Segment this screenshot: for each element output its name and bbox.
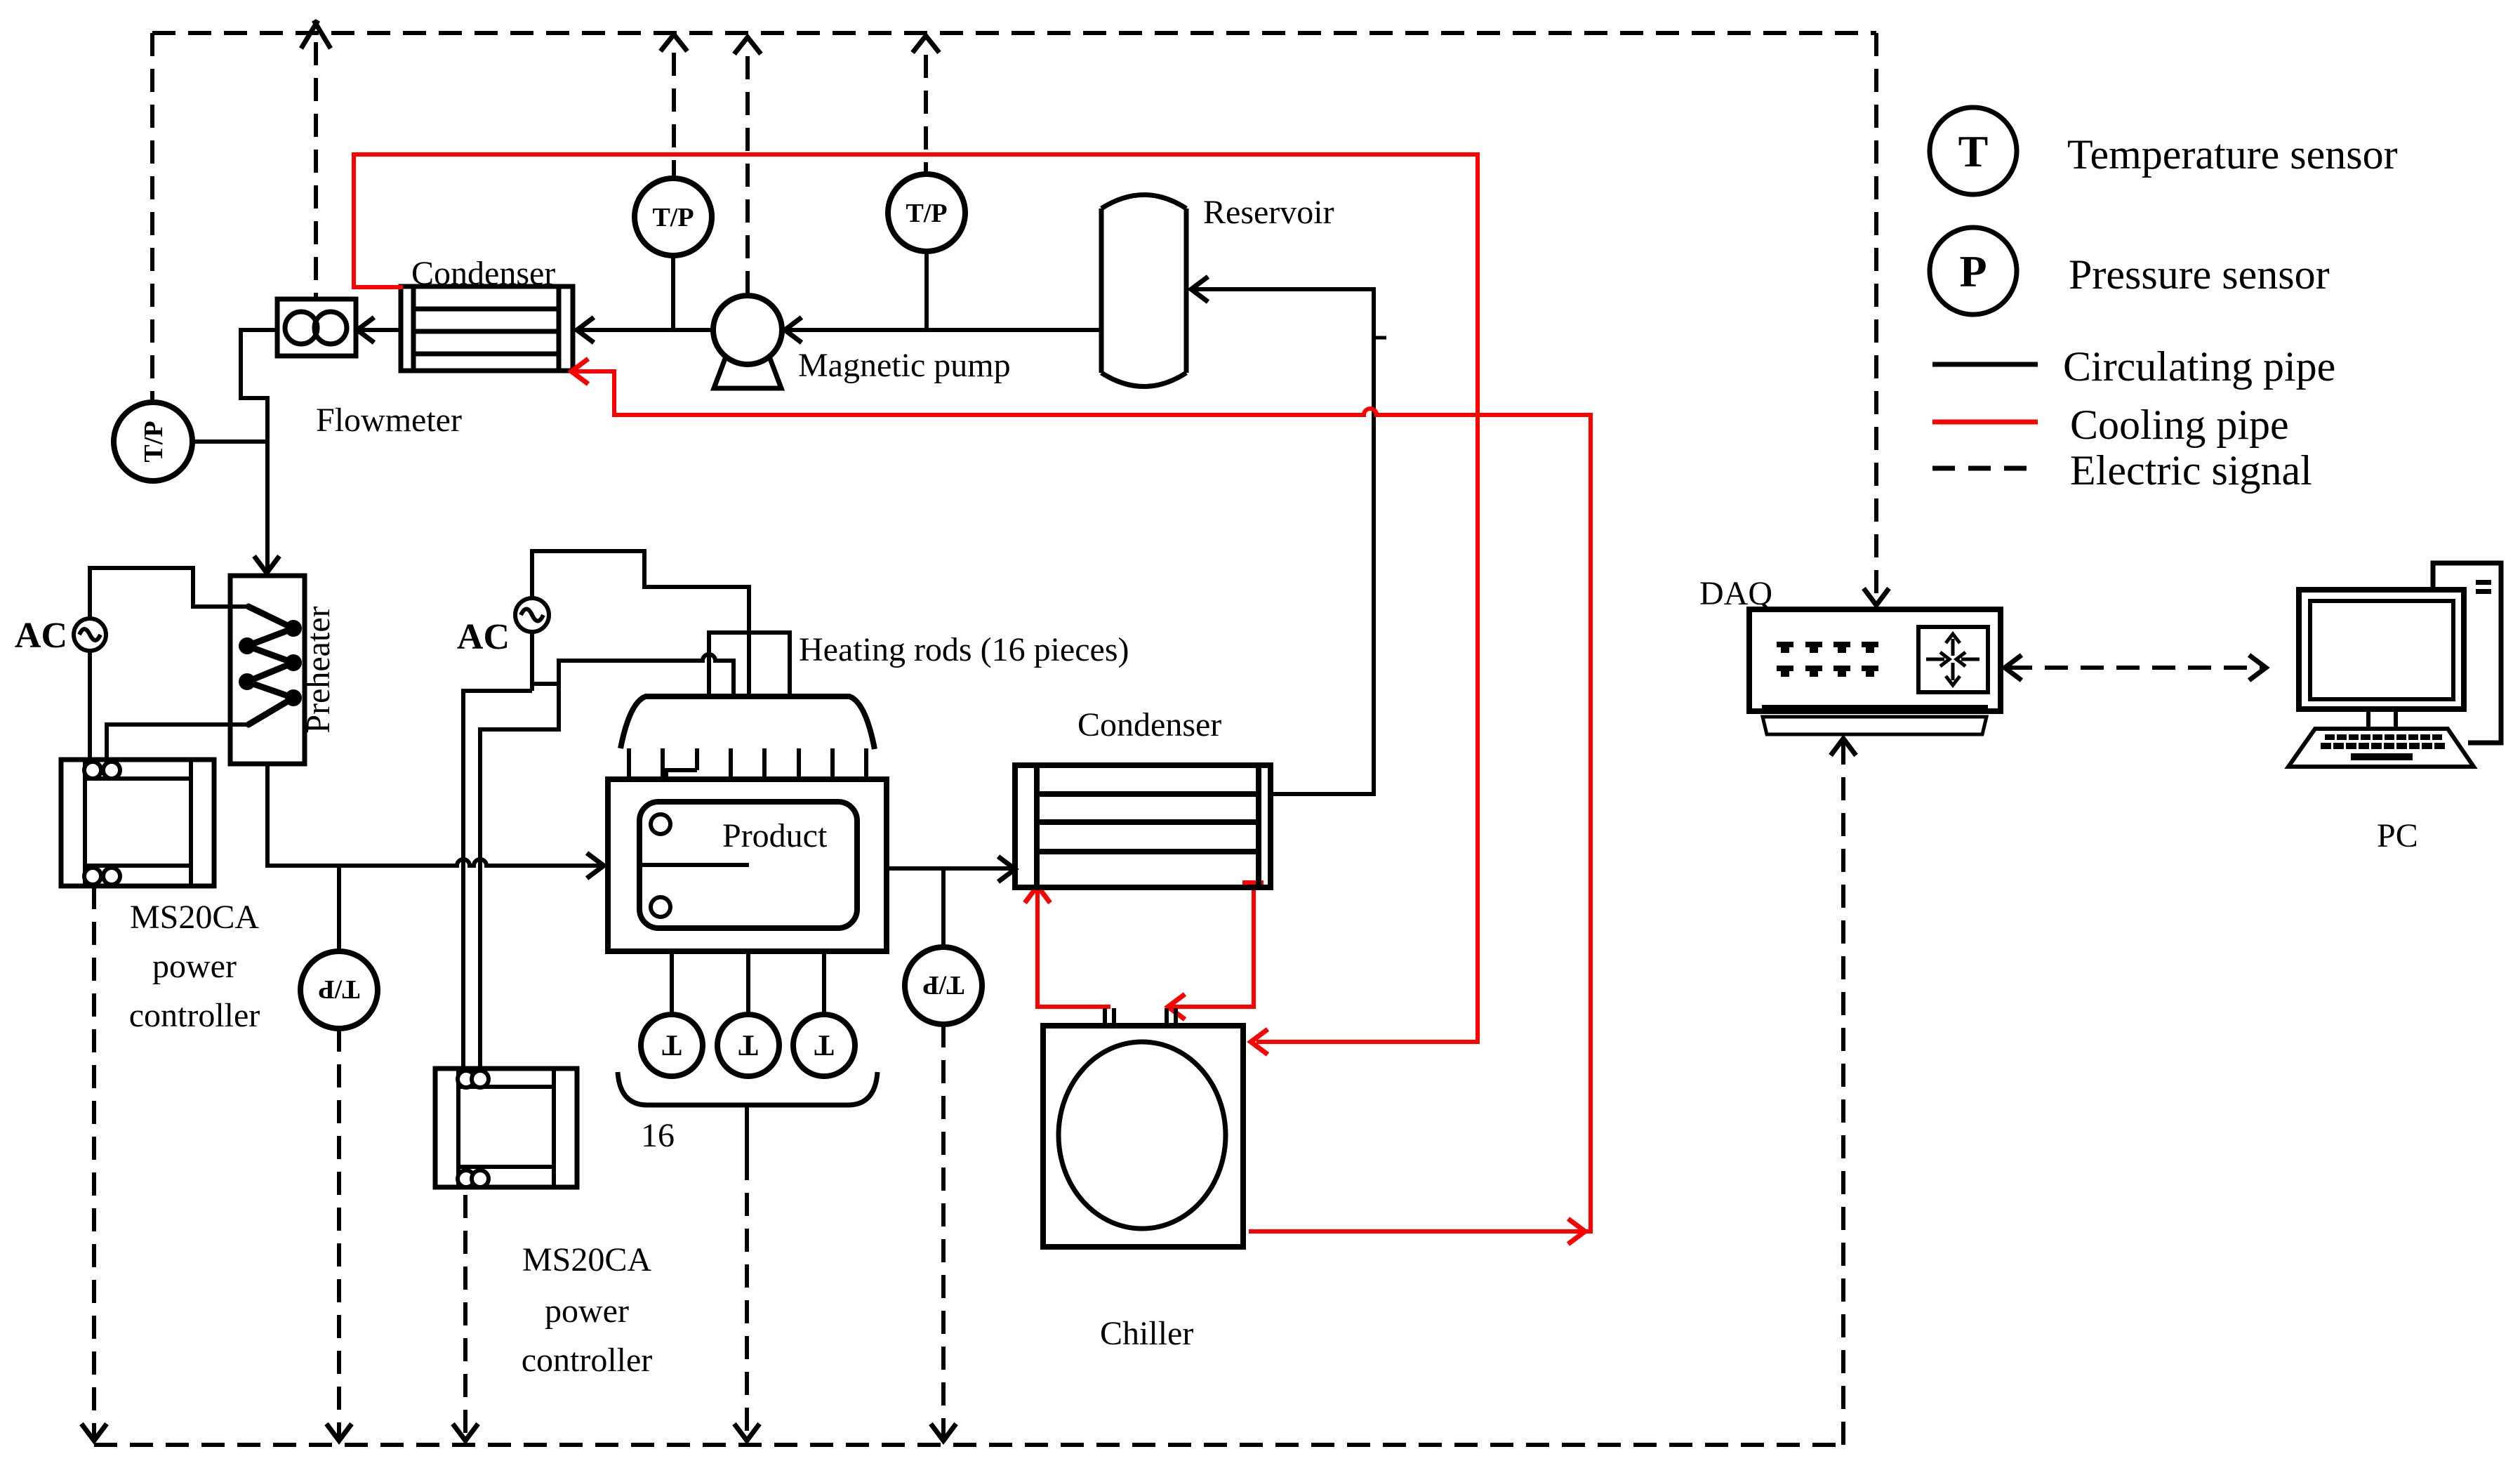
- arrow down at bus x=483: [326, 1424, 352, 1441]
- T sensor circle 3: [793, 1014, 855, 1076]
- wire dashed bottom bus up to DAQ: [1841, 739, 1845, 1445]
- PC tower: [2433, 563, 2501, 743]
- svg-text:Electric signal: Electric signal: [2070, 447, 2312, 494]
- svg-text:16: 16: [641, 1117, 675, 1154]
- svg-text:T/P: T/P: [922, 970, 964, 1000]
- wire dashed T/P3 to bottom bus: [337, 1029, 341, 1439]
- arrow down at bus x=1344: [931, 1424, 956, 1441]
- wire AC1 bottom to MS20CA 1: [88, 651, 92, 762]
- arrow into pump: [785, 317, 802, 343]
- svg-text:Condenser: Condenser: [411, 255, 555, 292]
- wire dashed vertical from T/P sensor 2 to top bus: [924, 55, 928, 174]
- red cooling pipe: condenser2 bottom-right down to chiller stub2: [1171, 882, 1254, 1007]
- condenser C2 body: [1015, 765, 1271, 887]
- wire dashed vertical from top bus to flowmeter: [314, 42, 318, 299]
- chiller stub 1: [1105, 1008, 1114, 1026]
- DAQ ports: [1777, 642, 1878, 677]
- chiller body: [1043, 1026, 1243, 1247]
- wire AC1 top to preheater coil: [90, 568, 248, 619]
- pipe reservoir to pump: [785, 328, 1101, 332]
- arrow red chiller outlet to riser: [1568, 1219, 1585, 1244]
- top electric signal bus: [152, 31, 1876, 35]
- svg-text:T/P: T/P: [652, 203, 694, 232]
- wire AC2 to controller riser: [532, 682, 559, 686]
- arrow down at bus x=1064: [734, 1424, 760, 1441]
- svg-text:T: T: [814, 1029, 834, 1061]
- pipe product to condenser2: [887, 866, 1012, 871]
- MS20CA power controller 2 box: [435, 1069, 577, 1187]
- legend electric signal sample: [1932, 466, 2029, 471]
- svg-text:T/P: T/P: [318, 974, 359, 1004]
- arrow up into DAQ tray: [1831, 739, 1856, 755]
- svg-text:T/P: T/P: [906, 199, 947, 228]
- arrow up at bus x=1319: [913, 36, 939, 53]
- wire dashed T/P4 to bottom bus: [941, 1024, 946, 1439]
- svg-text:Temperature sensor: Temperature sensor: [2067, 131, 2398, 178]
- red cooling pipe: chiller stub1 up to condenser2 bottom-left: [1037, 889, 1110, 1007]
- svg-text:Cooling pipe: Cooling pipe: [2070, 402, 2289, 448]
- wire AC2 top to heating rod lead A: [532, 551, 749, 696]
- svg-text:Product: Product: [722, 817, 828, 854]
- DAQ box: [1749, 609, 2001, 734]
- magnetic pump: [713, 296, 782, 388]
- arrow into product: [587, 853, 604, 878]
- rod tap L-wire: [666, 770, 697, 779]
- arrow red into condenser1 bottom-right: [571, 359, 588, 384]
- svg-text:T: T: [1958, 126, 1989, 176]
- svg-text:Magnetic pump: Magnetic pump: [798, 347, 1011, 384]
- T sensor circle 2: [717, 1014, 779, 1076]
- PC keys: [2321, 734, 2445, 760]
- svg-text:power: power: [545, 1292, 629, 1330]
- arrow red into chiller stub2: [1168, 994, 1185, 1019]
- T/P sensor 1 circle: [635, 178, 712, 256]
- arrow down at bus x=134: [81, 1424, 107, 1441]
- wire dashed MS20CA1 to bottom bus: [92, 886, 96, 1439]
- reservoir vessel: [1101, 195, 1186, 387]
- T sensor stems under product: [672, 951, 824, 1014]
- svg-text:Preheater: Preheater: [300, 606, 337, 733]
- svg-text:AC: AC: [15, 616, 67, 656]
- svg-text:T/P: T/P: [139, 421, 168, 462]
- pipe preheater to product with hops: [267, 764, 599, 866]
- arrow red into chiller right side: [1251, 1029, 1268, 1054]
- AC source 2 circle: [515, 598, 549, 632]
- svg-text:MS20CA: MS20CA: [130, 899, 259, 936]
- bottom electric signal bus: [94, 1443, 1843, 1447]
- legend temperature sensor symbol: [1930, 107, 2017, 194]
- svg-text:Circulating pipe: Circulating pipe: [2063, 343, 2335, 390]
- svg-text:Flowmeter: Flowmeter: [316, 402, 462, 439]
- arrow into PC: [2249, 655, 2266, 680]
- svg-text:MS20CA: MS20CA: [522, 1241, 651, 1278]
- svg-text:Heating rods (16 pieces): Heating rods (16 pieces): [799, 631, 1129, 668]
- legend cooling pipe sample: [1932, 420, 2038, 425]
- wire T/P sensor 3 stem: [337, 866, 341, 952]
- wire T/P1 to pipe: [671, 256, 675, 330]
- wire dashed vertical from magnetic pump to top bus: [745, 56, 750, 296]
- DAQ cross icon: [1918, 627, 1988, 692]
- wire dashed vertical from top bus to left T/P sensor: [150, 33, 154, 402]
- arrow into condenser2: [998, 857, 1015, 882]
- wire preheater coil bottom to MS20CA 1: [107, 725, 248, 762]
- wire dashed vertical from top bus down to DAQ: [1874, 33, 1878, 602]
- wire brace to bottom bus: [745, 1105, 749, 1157]
- chiller stub 2: [1167, 1008, 1176, 1026]
- T/P sensor left circle: [114, 402, 192, 481]
- AC source 1 circle: [74, 619, 106, 651]
- T/P sensor 2 circle: [888, 174, 965, 251]
- wire T/P2 to pipe: [924, 251, 929, 330]
- preheater box: [230, 576, 305, 764]
- arrow red up into condenser2: [1025, 886, 1050, 903]
- PC monitor: [2299, 590, 2464, 709]
- arrow into flowmeter: [357, 317, 374, 343]
- stub tick on reservoir line: [1374, 336, 1386, 340]
- pipe condenser1 to flowmeter: [357, 328, 401, 332]
- T sensor circle 1: [641, 1014, 703, 1076]
- PC keyboard: [2288, 729, 2474, 767]
- pipe pump to condenser1: [577, 328, 713, 332]
- heating rod pins: [629, 748, 866, 779]
- svg-text:T: T: [738, 1029, 758, 1061]
- arrow down into preheater: [254, 556, 279, 573]
- svg-text:T: T: [662, 1029, 682, 1061]
- legend pressure sensor symbol: [1930, 227, 2017, 315]
- svg-text:AC: AC: [457, 617, 510, 657]
- svg-text:controller: controller: [522, 1342, 653, 1379]
- arrow down into DAQ top: [1864, 588, 1889, 605]
- product vessel outer box: [608, 779, 887, 951]
- arrow up at bus x=1065: [734, 37, 761, 54]
- PC tower vents: [2476, 580, 2491, 585]
- arrow crossed at bus x=450: [301, 20, 331, 48]
- red stub at condenser2 corner: [1242, 880, 1264, 885]
- svg-text:DAQ: DAQ: [1699, 575, 1772, 612]
- pipe condenser2 outlet to reservoir: [1191, 289, 1374, 794]
- svg-text:power: power: [152, 948, 237, 985]
- PC stand: [2368, 709, 2396, 729]
- brace under T sensors: [618, 1072, 877, 1105]
- wire dashed MS20CA2 to bottom bus: [463, 1195, 467, 1439]
- T/P sensor 4 circle (rotated): [905, 947, 982, 1024]
- svg-text:Condenser: Condenser: [1077, 706, 1221, 743]
- pipe flowmeter down to preheater: [241, 330, 277, 570]
- svg-text:Pressure sensor: Pressure sensor: [2069, 251, 2330, 298]
- legend circulating pipe sample: [1932, 362, 2038, 367]
- arrow into reservoir: [1191, 277, 1208, 302]
- wire MS20CA2 terminal2 riser to heating rod lead B: [480, 654, 734, 1079]
- svg-text:Chiller: Chiller: [1100, 1315, 1193, 1352]
- wire MS20CA2 terminal1 riser: [463, 691, 532, 1079]
- arrow up at bus x=960: [661, 34, 687, 51]
- red cooling pipe: condenser1 top to chiller inlet: [354, 154, 1478, 1042]
- svg-text:PC: PC: [2377, 817, 2418, 854]
- arrow down at bus x=663: [453, 1424, 478, 1441]
- red cooling pipe: chiller outlet up and to condenser1 bottom: [571, 371, 1591, 1231]
- wire heating rod staple: [709, 633, 790, 696]
- arrow into DAQ right: [2005, 655, 2022, 680]
- wire AC2 bottom node: [530, 632, 534, 691]
- wire from left T/P to pipe: [192, 439, 267, 444]
- svg-text:controller: controller: [129, 997, 260, 1034]
- heater dome bell: [621, 696, 875, 749]
- MS20CA power controller 1 box: [61, 760, 214, 886]
- flowmeter body: [277, 299, 356, 356]
- svg-text:P: P: [1959, 246, 1987, 296]
- condenser C1 body: [401, 286, 573, 371]
- T/P sensor 3 circle (rotated): [300, 951, 378, 1029]
- wire T/P sensor 4 stem: [941, 868, 946, 948]
- svg-text:Reservoir: Reservoir: [1203, 194, 1334, 231]
- dashed link DAQ to PC: [2009, 666, 2262, 670]
- arrow into condenser1: [577, 317, 594, 343]
- wire dashed vertical from T/P sensor 1 to top bus: [672, 53, 676, 178]
